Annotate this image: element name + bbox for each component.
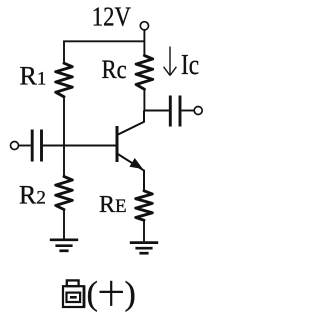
- wire top rail: [64, 41, 144, 63]
- capacitor Cin plates: [32, 130, 41, 162]
- output terminal circle: [194, 107, 202, 115]
- svg-text:): ): [125, 276, 136, 313]
- power terminal circle: [140, 22, 148, 30]
- wire RE to ground: [143, 221, 145, 242]
- wire base: [43, 145, 116, 147]
- current arrow Ic: [164, 47, 177, 76]
- resistor R2: [56, 177, 73, 210]
- svg-text:12V: 12V: [92, 1, 131, 31]
- caption glyph 十: [100, 281, 124, 306]
- wire Rc bottom to collector node: [143, 90, 145, 111]
- transistor Q1 emitter arrowhead: [130, 159, 141, 168]
- wire supply drop: [143, 30, 145, 56]
- wire R2 to ground: [63, 210, 65, 239]
- wire R1 bottom to base node: [63, 97, 65, 177]
- transistor Q1 emitter lead: [117, 154, 144, 191]
- ground under RE: [130, 243, 158, 254]
- svg-text:RE: RE: [99, 192, 127, 218]
- transistor Q1 base bar: [116, 126, 119, 162]
- wire output cap to terminal: [181, 110, 194, 112]
- capacitor Cout plates: [170, 96, 180, 127]
- resistor R1: [56, 63, 73, 97]
- resistor Rc: [136, 56, 153, 90]
- svg-text:R2: R2: [19, 181, 46, 210]
- svg-text:R1: R1: [20, 62, 47, 91]
- wire collector node to output cap: [144, 110, 169, 112]
- wire input terminal to cap: [19, 145, 31, 147]
- caption glyph 圖: [63, 280, 84, 307]
- input terminal circle: [11, 142, 19, 150]
- svg-text:Ic: Ic: [181, 49, 199, 81]
- svg-text:(: (: [87, 276, 98, 313]
- resistor RE: [136, 191, 153, 220]
- transistor Q1 collector lead: [117, 111, 144, 136]
- svg-text:Rc: Rc: [102, 55, 127, 84]
- ground under R2: [50, 240, 78, 251]
